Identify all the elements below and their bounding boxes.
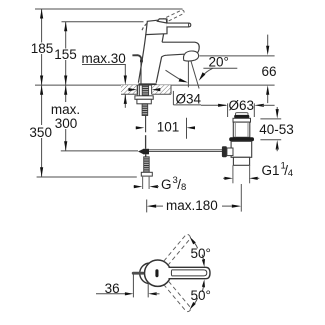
arc arrow upper-right (to handle top) xyxy=(202,259,205,267)
pop-up rod lower xyxy=(145,116,147,133)
arc arrow lower-right (to handle bottom) xyxy=(202,279,205,287)
drain plug knob xyxy=(236,113,249,116)
faucet lever pivot bump xyxy=(157,19,166,23)
drain clamp arm xyxy=(227,148,233,156)
threaded stud xyxy=(142,104,148,116)
dim max.180 xyxy=(146,200,148,213)
dim 66 xyxy=(200,55,275,57)
arrow 185 top xyxy=(40,9,43,19)
collar nut xyxy=(141,172,152,176)
drain upper column xyxy=(233,122,250,137)
faucet body right edge lower xyxy=(156,57,162,83)
svg-text:350: 350 xyxy=(29,125,52,140)
svg-text:max.180: max.180 xyxy=(166,198,218,213)
keyhole mark xyxy=(155,269,158,277)
body circle (top view) xyxy=(145,260,171,286)
pop-up rod upper xyxy=(140,62,142,85)
arrow 185 bottom xyxy=(40,76,43,86)
arrow max300 top xyxy=(64,85,67,95)
drain O-ring (dark) xyxy=(229,137,254,141)
arc arrow lower-left (to dashed lever) xyxy=(190,302,196,310)
wire: max300 bottom line xyxy=(61,150,138,152)
svg-text:20°: 20° xyxy=(209,54,229,69)
pop-up rod knob xyxy=(140,59,143,62)
drain tailpipe xyxy=(232,165,234,183)
faucet body left edge xyxy=(138,35,145,83)
drain seal (dark) xyxy=(234,115,249,118)
20° angle ray slanted xyxy=(191,60,200,89)
faucet lever handle xyxy=(167,23,191,27)
drain clamp knob (knurled) xyxy=(222,146,227,157)
dashed lever up 50° xyxy=(164,233,192,264)
dashed lever raised position xyxy=(156,10,185,23)
svg-text:40-53: 40-53 xyxy=(259,122,294,137)
faucet base band xyxy=(138,83,156,85)
countertop hatched block left xyxy=(121,85,137,94)
wire: 350 bottom line xyxy=(37,176,137,178)
solid lever handle (top view) xyxy=(169,267,211,278)
countertop hatched block right xyxy=(152,85,171,94)
svg-text:66: 66 xyxy=(261,64,276,79)
label Ø34 with bracket xyxy=(172,91,174,105)
rod clamp xyxy=(143,149,149,155)
spout arm xyxy=(162,42,199,53)
dim line 185/350 vertical xyxy=(41,9,43,177)
wire: countertop reference line xyxy=(35,84,275,86)
arrow Ø34 right (inside right block) xyxy=(152,88,161,91)
arrow max300 bottom xyxy=(64,141,67,151)
arc arrow upper-left (to dashed lever) xyxy=(190,237,196,245)
20° arc left with arrow xyxy=(166,70,184,82)
arrow Ø34 left (inside left block) xyxy=(128,88,137,91)
nut xyxy=(137,99,151,104)
svg-text:101: 101 xyxy=(157,119,180,134)
dim 101 xyxy=(136,127,138,129)
svg-text:155: 155 xyxy=(54,47,77,62)
svg-text:300: 300 xyxy=(55,116,78,131)
arrow 155 top xyxy=(64,22,67,32)
pop-up rod hook xyxy=(132,55,141,62)
lever inner slot xyxy=(171,270,206,276)
linkage rod horizontal xyxy=(149,149,222,151)
svg-text:4: 4 xyxy=(288,168,293,179)
dashed arc near cap left xyxy=(142,24,147,31)
faucet body right edge upper xyxy=(162,34,164,42)
lower threaded rod xyxy=(144,157,150,173)
svg-text:max.30: max.30 xyxy=(82,51,126,66)
drain plug collar xyxy=(233,118,251,122)
wire: level line 155 (spout top) xyxy=(62,21,144,23)
drain tail nut xyxy=(233,157,249,165)
arrow 350 top xyxy=(40,85,43,95)
wire: level line 185 (lever top) xyxy=(35,8,183,10)
washer xyxy=(135,96,153,100)
aerator xyxy=(183,51,198,61)
svg-text:G: G xyxy=(161,177,172,192)
faucet cartridge cap xyxy=(146,19,167,34)
spout underside xyxy=(162,54,184,57)
dim G1 1/4 xyxy=(223,177,224,179)
dim Ø63 xyxy=(201,104,226,106)
svg-text:G1: G1 xyxy=(262,163,280,178)
svg-text:8: 8 xyxy=(181,182,186,193)
svg-text:50°: 50° xyxy=(191,288,211,303)
dim 40-53 xyxy=(260,118,281,120)
svg-text:Ø34: Ø34 xyxy=(176,91,202,106)
leader max.30 down arrow xyxy=(124,65,126,78)
drain centerline xyxy=(240,184,242,212)
svg-text:max.: max. xyxy=(51,102,80,117)
dim line 155/max300 vertical xyxy=(65,22,67,151)
svg-text:50°: 50° xyxy=(191,246,211,261)
arrow 350 bottom xyxy=(40,167,43,177)
drain lower body xyxy=(231,141,252,157)
aerator nub (top view) xyxy=(133,272,143,275)
spout circle (top view) xyxy=(140,263,161,284)
G3/8 tube xyxy=(142,176,144,189)
pop-up rod in hole xyxy=(137,85,139,96)
20° angle ray vertical xyxy=(187,60,189,87)
svg-text:Ø63: Ø63 xyxy=(229,98,255,113)
svg-text:185: 185 xyxy=(31,41,54,56)
G3/8 arrows xyxy=(134,186,135,188)
shank threads in hole xyxy=(142,85,148,96)
arrow 155 bottom xyxy=(64,76,67,86)
max.30 lower up arrow xyxy=(124,95,126,108)
dashed lever down 50° xyxy=(164,281,192,312)
